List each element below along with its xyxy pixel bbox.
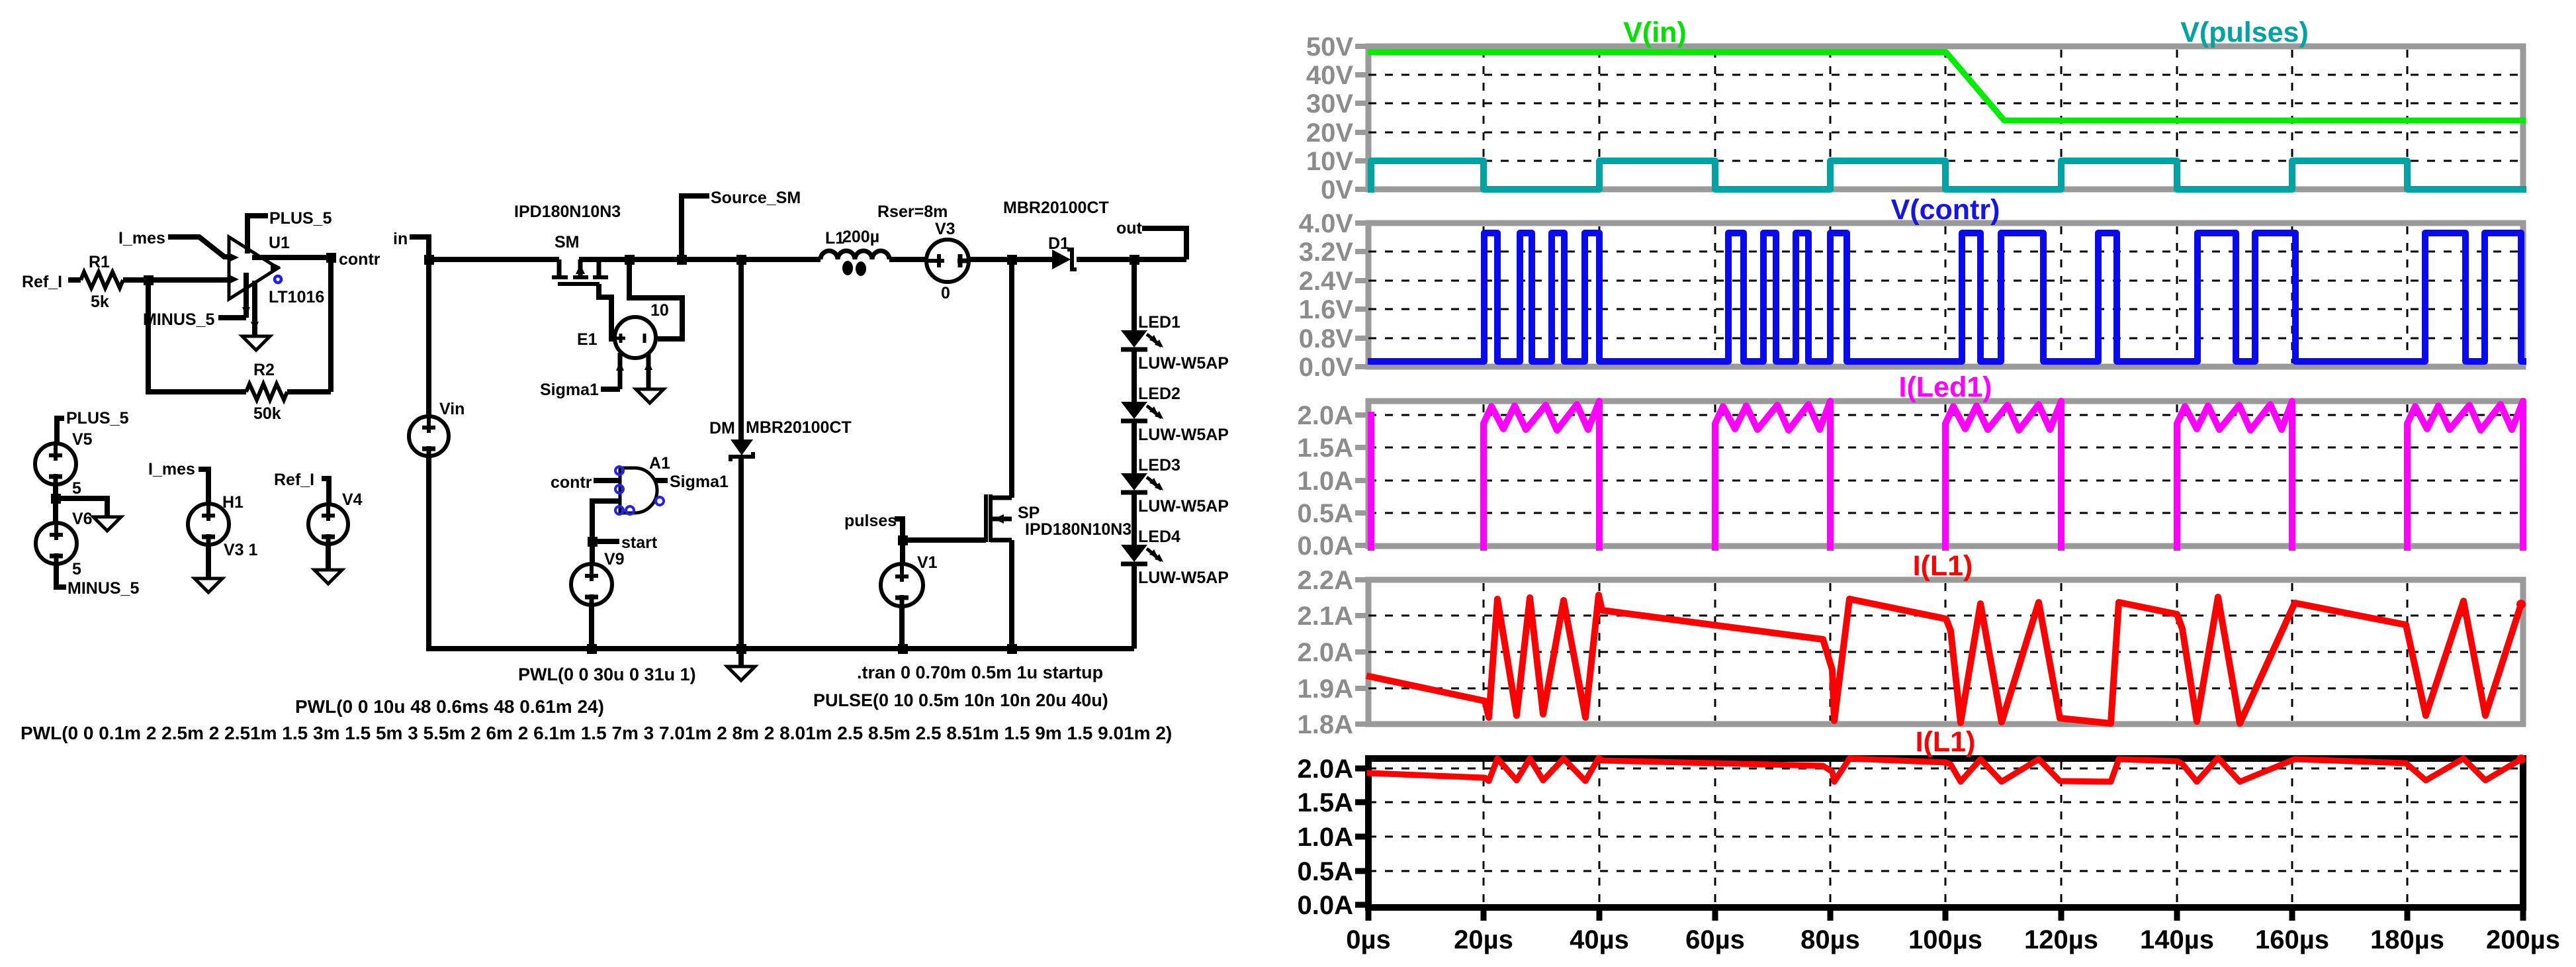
voltage source V6 xyxy=(36,523,77,564)
wire contr to A1 xyxy=(594,478,620,483)
svg-text:IPD180N10N3: IPD180N10N3 xyxy=(514,203,621,221)
wire I_mes to plus input (diagonal) xyxy=(168,237,232,257)
svg-text:10V: 10V xyxy=(1306,147,1353,176)
ground (H1) xyxy=(195,578,222,592)
svg-text:I(Led1): I(Led1) xyxy=(1899,371,1992,403)
wire Source_SM riser xyxy=(682,196,709,259)
svg-text:LED4: LED4 xyxy=(1138,528,1180,546)
svg-text:L1: L1 xyxy=(825,229,844,248)
svg-text:140µs: 140µs xyxy=(2140,925,2214,954)
svg-text:1.5A: 1.5A xyxy=(1298,434,1354,463)
svg-text:IPD180N10N3: IPD180N10N3 xyxy=(1025,520,1132,539)
plot panel 3 frame xyxy=(1368,401,2523,546)
wire LED1 cathode xyxy=(1132,349,1137,402)
voltage source V9 xyxy=(571,564,612,605)
svg-text:1.5A: 1.5A xyxy=(1298,788,1354,817)
voltage source Vin xyxy=(409,416,449,456)
wire Ref_I to V4 xyxy=(322,479,329,504)
svg-text:A1: A1 xyxy=(649,454,670,473)
svg-text:2.0A: 2.0A xyxy=(1298,755,1354,784)
node DM junction xyxy=(736,255,746,265)
ground (V4) xyxy=(314,570,342,584)
svg-text:1.6V: 1.6V xyxy=(1299,295,1354,324)
op-amp output arrow at apex xyxy=(271,262,281,271)
svg-text:0V: 0V xyxy=(1321,175,1353,205)
svg-text:0.5A: 0.5A xyxy=(1298,857,1354,886)
wire Vin drop xyxy=(426,259,431,416)
wire LED4 cathode xyxy=(1132,564,1137,649)
svg-text:V(pulses): V(pulses) xyxy=(2180,17,2309,48)
wire feedback right leg xyxy=(328,257,333,392)
svg-text:40V: 40V xyxy=(1306,61,1353,90)
svg-text:5: 5 xyxy=(72,479,81,498)
svg-text:LUW-W5AP: LUW-W5AP xyxy=(1138,497,1229,516)
svg-text:I(L1): I(L1) xyxy=(1913,550,1973,582)
wire I_mes to H1 xyxy=(199,469,208,504)
ground (main, below rail) xyxy=(738,649,744,667)
node start junction xyxy=(588,537,598,547)
LED LED2 (LUW-W5AP) xyxy=(1121,402,1147,419)
wire bottom rail xyxy=(592,646,1134,651)
svg-text:PULSE(0 10 0.5m 10n 10n 20u 40: PULSE(0 10 0.5m 10n 10n 20u 40u) xyxy=(813,690,1108,710)
svg-text:1.0A: 1.0A xyxy=(1298,823,1354,852)
svg-text:Ref_I: Ref_I xyxy=(274,471,314,489)
svg-text:2.1A: 2.1A xyxy=(1298,602,1354,631)
node A junction xyxy=(144,275,154,285)
trace V(pulses) teal xyxy=(1371,161,2523,189)
transistor SP (IPD180N10N3) xyxy=(986,494,991,542)
svg-text:200µ: 200µ xyxy=(842,228,879,246)
wire A1 output to Sigma1 xyxy=(655,478,668,483)
svg-text:60µs: 60µs xyxy=(1685,925,1745,954)
inductor L1 xyxy=(821,251,889,259)
svg-text:LED3: LED3 xyxy=(1138,456,1180,475)
wire LED3 cathode xyxy=(1132,492,1137,545)
svg-text:LED2: LED2 xyxy=(1138,385,1180,403)
plot panel 3 y axis labels and ticks xyxy=(1355,412,1367,418)
svg-text:1.9A: 1.9A xyxy=(1298,674,1354,704)
wire PLUS_5 to V5 xyxy=(57,418,64,444)
diode D1 (MBR20100CT) xyxy=(1052,250,1071,269)
svg-text:I(L1): I(L1) xyxy=(1916,726,1976,758)
wire top rail right of SM xyxy=(579,257,821,262)
svg-text:V3 1: V3 1 xyxy=(224,541,258,559)
svg-text:V4: V4 xyxy=(342,490,363,509)
svg-text:MINUS_5: MINUS_5 xyxy=(67,579,139,598)
A1 unused pin markers xyxy=(615,467,623,475)
svg-text:in: in xyxy=(393,230,408,248)
plot panel 2 y axis labels and ticks xyxy=(1355,220,1367,226)
dependent source E1 xyxy=(615,317,656,358)
wire D1 to out corner xyxy=(1077,257,1186,262)
node pulses junction xyxy=(898,535,908,545)
plot panel 1 y axis labels and ticks xyxy=(1355,44,1367,49)
svg-text:H1: H1 xyxy=(222,493,244,512)
wire Ref_I to R1 xyxy=(68,277,81,283)
node rail junctions xyxy=(587,644,597,654)
svg-text:0.0V: 0.0V xyxy=(1299,353,1354,382)
wire in label to rail xyxy=(410,237,429,259)
svg-text:SM: SM xyxy=(555,233,580,252)
svg-text:contr: contr xyxy=(339,250,380,269)
svg-text:0: 0 xyxy=(941,284,950,302)
svg-text:LUW-W5AP: LUW-W5AP xyxy=(1138,426,1229,444)
svg-text:4.0V: 4.0V xyxy=(1299,209,1354,238)
node Source_SM junction xyxy=(677,255,687,265)
svg-text:50V: 50V xyxy=(1306,32,1353,62)
svg-text:160µs: 160µs xyxy=(2255,925,2329,954)
node contr junction xyxy=(326,253,336,263)
svg-text:MBR20100CT: MBR20100CT xyxy=(746,418,852,437)
op-amp gnd pin xyxy=(252,281,257,336)
node in junction xyxy=(424,255,434,265)
svg-text:200µs: 200µs xyxy=(2486,925,2560,954)
svg-text:out: out xyxy=(1116,219,1143,238)
svg-text:0.0A: 0.0A xyxy=(1298,891,1354,920)
wire L1 to V3 xyxy=(889,257,927,262)
svg-text:0.5A: 0.5A xyxy=(1298,499,1354,528)
plot panel 3 horizontal gridlines xyxy=(1368,414,2523,416)
svg-text:10: 10 xyxy=(650,301,669,320)
svg-text:LED1: LED1 xyxy=(1138,313,1180,332)
plot panel 2 frame xyxy=(1368,223,2523,367)
E1 bottom pins xyxy=(620,352,648,389)
LED LED3 (LUW-W5AP) xyxy=(1121,473,1147,490)
svg-text:0µs: 0µs xyxy=(1346,925,1391,954)
wire R1 to node A xyxy=(123,277,229,283)
plot panel 4 horizontal gridlines xyxy=(1368,615,2523,617)
svg-text:.tran 0 0.70m 0.5m 1u startup: .tran 0 0.70m 0.5m 1u startup xyxy=(857,663,1103,682)
wire pulses node to V1 xyxy=(900,540,905,564)
svg-text:Sigma1: Sigma1 xyxy=(670,473,729,491)
plot panel 1 vertical gridlines xyxy=(1483,50,1485,186)
wire pulses to gate node xyxy=(895,519,903,540)
svg-text:pulses: pulses xyxy=(844,512,897,530)
svg-text:5: 5 xyxy=(72,560,81,578)
svg-text:MINUS_5: MINUS_5 xyxy=(143,310,214,329)
plot panel 3 vertical gridlines xyxy=(1483,404,1485,543)
voltage source V4 xyxy=(308,504,348,544)
svg-text:Source_SM: Source_SM xyxy=(711,189,801,207)
wire SM gate to E1 xyxy=(599,284,611,342)
op-amp U1 LT1016 triangle xyxy=(229,237,278,299)
wire gate wire to SP xyxy=(903,537,986,543)
wire feedback bottom left segment xyxy=(287,389,331,394)
svg-text:E1: E1 xyxy=(577,330,598,349)
svg-text:D1: D1 xyxy=(1048,234,1069,253)
wire MINUS_5 to opamp xyxy=(218,315,246,320)
svg-text:Rser=8m: Rser=8m xyxy=(877,203,948,221)
voltage source V5 xyxy=(35,443,76,484)
svg-text:U1: U1 xyxy=(269,234,290,252)
wire opamp output to contr node xyxy=(252,255,331,260)
dependent source H1 xyxy=(188,504,229,545)
svg-text:V(in): V(in) xyxy=(1623,17,1687,48)
wire V1 to rail xyxy=(899,606,905,649)
svg-text:3.2V: 3.2V xyxy=(1299,238,1354,267)
AND gate A1 xyxy=(620,468,657,513)
svg-text:V5: V5 xyxy=(72,430,93,449)
plot panel 4 y axis labels and ticks xyxy=(1355,577,1367,582)
op-amp V- pin xyxy=(244,273,249,318)
wire V5 to node 5 xyxy=(53,484,58,523)
svg-text:20V: 20V xyxy=(1306,118,1353,148)
ground (opamp) xyxy=(242,336,270,350)
svg-text:Sigma1: Sigma1 xyxy=(540,381,599,399)
op-amp V+ pin wire to PLUS_5 xyxy=(247,216,268,253)
node 5 junction xyxy=(51,494,61,504)
svg-text:2.4V: 2.4V xyxy=(1299,267,1354,296)
svg-text:DM: DM xyxy=(709,419,735,437)
node SP junction xyxy=(1007,255,1017,265)
svg-text:PWL(0 0 30u 0 31u 1): PWL(0 0 30u 0 31u 1) xyxy=(518,665,696,684)
wire feedback bottom to left leg xyxy=(148,280,246,392)
svg-text:V3: V3 xyxy=(935,220,955,238)
svg-text:5k: 5k xyxy=(91,293,109,311)
svg-text:I_mes: I_mes xyxy=(148,460,195,479)
svg-text:2.2A: 2.2A xyxy=(1298,566,1354,595)
svg-text:V6: V6 xyxy=(72,510,93,528)
svg-text:2.0A: 2.0A xyxy=(1298,638,1354,667)
node LED junction xyxy=(1130,255,1139,265)
ground (supply midpoint) xyxy=(93,517,121,531)
wire top of LED string xyxy=(1132,259,1137,330)
svg-text:40µs: 40µs xyxy=(1570,925,1629,954)
trace I(L1) red panel 5 xyxy=(1370,758,2521,782)
svg-text:20µs: 20µs xyxy=(1454,925,1513,954)
wire top rail left of SM xyxy=(429,257,559,262)
resistor R1 xyxy=(81,272,123,288)
svg-text:SP: SP xyxy=(1018,504,1040,522)
transistor SM (IPD180N10N3) xyxy=(559,259,599,276)
blue node marker at opamp xyxy=(275,276,281,283)
trace V(contr) blue xyxy=(1371,233,2523,361)
svg-text:LUW-W5AP: LUW-W5AP xyxy=(1138,354,1229,373)
svg-text:V(contr): V(contr) xyxy=(1891,194,2000,226)
wire DM to bottom rail xyxy=(738,457,744,649)
svg-text:start: start xyxy=(621,533,658,552)
svg-text:LT1016: LT1016 xyxy=(269,288,324,306)
svg-text:1.8A: 1.8A xyxy=(1298,710,1354,739)
wire V9 to rail xyxy=(589,605,594,649)
plot panel 2 vertical gridlines xyxy=(1483,226,1485,363)
wire node to ground (mid supplies) xyxy=(56,498,107,517)
svg-text:180µs: 180µs xyxy=(2370,925,2444,954)
wire V6 to MINUS_5 xyxy=(56,564,66,587)
resistor R2 xyxy=(246,384,287,400)
wire Sigma1 to E1 xyxy=(601,387,620,392)
plot panel 2 horizontal gridlines xyxy=(1368,251,2523,253)
x axis labels (time) xyxy=(1366,911,1372,921)
plot panel 1 frame xyxy=(1368,46,2523,189)
wire E1 sense loop xyxy=(629,259,682,339)
svg-text:contr: contr xyxy=(551,473,592,492)
diode DM (MBR20100CT) xyxy=(731,439,753,455)
plot panel 4 frame xyxy=(1368,580,2523,724)
svg-text:120µs: 120µs xyxy=(2024,925,2098,954)
svg-text:Vin: Vin xyxy=(439,400,465,418)
svg-text:100µs: 100µs xyxy=(1908,925,1982,954)
svg-text:R2: R2 xyxy=(253,361,275,379)
wire V3 to D1 xyxy=(969,257,1052,262)
svg-text:R1: R1 xyxy=(89,253,110,271)
plot panel 5 vertical gridlines xyxy=(1483,762,1485,904)
wire out label loop xyxy=(1142,228,1186,259)
svg-text:50k: 50k xyxy=(253,404,281,423)
svg-text:V1: V1 xyxy=(917,553,938,572)
svg-text:80µs: 80µs xyxy=(1800,925,1860,954)
wire LED2 cathode xyxy=(1132,421,1137,473)
trace I(L1) red panel 4 xyxy=(1370,595,2521,723)
svg-text:LUW-W5AP: LUW-W5AP xyxy=(1138,569,1229,587)
trace V(in) green xyxy=(1371,52,2523,120)
svg-text:2.0A: 2.0A xyxy=(1298,401,1354,430)
wire SP drain up xyxy=(1009,259,1014,498)
trace I(Led1) magenta xyxy=(1371,401,2523,547)
wire H1 to ground xyxy=(206,545,211,578)
op-amp input arrows xyxy=(229,253,239,262)
plot panel 5 y axis labels and ticks xyxy=(1355,766,1367,772)
svg-text:PWL(0 0 10u 48 0.6ms 48 0.61m: PWL(0 0 10u 48 0.6ms 48 0.61m 24) xyxy=(295,696,604,717)
plot panel 1 horizontal gridlines xyxy=(1368,74,2523,76)
wire start stub xyxy=(592,539,619,544)
svg-text:V9: V9 xyxy=(604,550,625,569)
wire V4 to ground xyxy=(326,544,331,570)
LED LED1 (LUW-W5AP) xyxy=(1121,330,1147,347)
wire Vin to bottom rail xyxy=(429,456,592,649)
LED LED4 (LUW-W5AP) xyxy=(1121,545,1147,562)
voltage source V3 (0V sense) xyxy=(926,240,969,282)
svg-text:0.0A: 0.0A xyxy=(1298,531,1354,561)
svg-text:MBR20100CT: MBR20100CT xyxy=(1003,199,1109,217)
svg-text:1.0A: 1.0A xyxy=(1298,467,1354,496)
voltage source V1 xyxy=(881,564,923,606)
wire A1 second input down to V9 xyxy=(592,501,620,564)
plot panel 5 horizontal gridlines xyxy=(1368,768,2523,770)
plot panel 5 frame xyxy=(1368,759,2523,907)
node junction (E1 sense tap) xyxy=(625,255,635,265)
svg-text:PWL(0 0 0.1m 2 2.5m 2 2.51m 1.: PWL(0 0 0.1m 2 2.5m 2 2.51m 1.5 3m 1.5 5… xyxy=(21,723,1172,743)
svg-text:I_mes: I_mes xyxy=(118,229,165,248)
svg-text:PLUS_5: PLUS_5 xyxy=(66,409,129,428)
svg-text:PLUS_5: PLUS_5 xyxy=(269,209,332,228)
wire SP source down xyxy=(1009,540,1014,649)
plot panel 4 vertical gridlines xyxy=(1483,583,1485,721)
svg-text:0.8V: 0.8V xyxy=(1299,324,1354,353)
svg-text:30V: 30V xyxy=(1306,89,1353,118)
wire DM branch top xyxy=(738,259,744,439)
ground (E1) xyxy=(636,389,664,403)
svg-text:Ref_I: Ref_I xyxy=(22,273,62,291)
